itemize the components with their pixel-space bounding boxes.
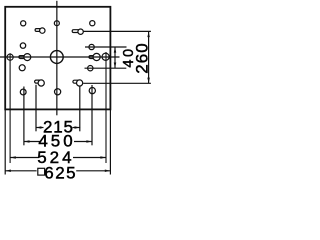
extension line 524 right xyxy=(105,52,107,163)
dim 625 arrow left xyxy=(5,170,10,173)
right edge crossed circle xyxy=(102,53,109,60)
extension line E4 circle row 2 xyxy=(85,67,127,69)
extension line E5 bottom keyhole row xyxy=(83,82,151,84)
right column hole lower xyxy=(88,66,93,71)
top row hole left xyxy=(21,21,26,26)
extension line E1 top keyhole row xyxy=(84,30,151,32)
dim 215 line left segment xyxy=(36,127,44,129)
top row hole right xyxy=(90,21,95,26)
dim 450 arrow right xyxy=(86,140,91,143)
top keyhole 2 xyxy=(72,29,83,34)
dim 215 arrow left xyxy=(36,126,41,129)
bottom row hole center xyxy=(55,89,61,95)
center big circle xyxy=(50,51,63,64)
svg-text:625: 625 xyxy=(44,164,77,183)
dim 524 arrow right xyxy=(100,156,105,159)
top keyhole 1 xyxy=(35,28,45,33)
horizontal centerline xyxy=(0,56,120,58)
extension line 524 left xyxy=(9,53,11,163)
dim 450 arrow left xyxy=(24,140,29,143)
extension line 450 left xyxy=(23,87,25,146)
left column hole lower xyxy=(19,65,25,71)
top row hole center xyxy=(54,21,59,26)
right circle1 tick xyxy=(85,46,127,48)
dim 215 arrow right xyxy=(75,126,80,129)
dim 625 line left segment xyxy=(5,170,36,172)
left edge crossed circle xyxy=(7,54,13,60)
centerline right keyhole xyxy=(89,53,100,60)
square symbol of 625 xyxy=(38,168,45,175)
dim 215 line right segment xyxy=(73,127,81,129)
svg-text:260: 260 xyxy=(132,42,151,73)
bottom keyhole 3 xyxy=(35,80,45,86)
left column hole upper xyxy=(20,43,25,48)
plate outline xyxy=(5,7,110,110)
bottom keyhole 4 xyxy=(73,80,83,86)
dim 260 arrow up xyxy=(147,32,150,37)
dim 524 line left segment xyxy=(10,157,39,159)
extension line 215 left xyxy=(35,85,37,132)
dim 450 line left segment xyxy=(24,141,40,143)
extension line 215 right xyxy=(79,86,81,131)
dim 625 arrow right xyxy=(105,170,110,173)
centerline left keyhole xyxy=(19,54,31,61)
dim 40 arrow down xyxy=(114,63,117,68)
extension line 625 left xyxy=(4,109,6,174)
dim 260 arrow down xyxy=(147,78,150,83)
dim 40 arrow up xyxy=(114,47,117,52)
right column hole upper xyxy=(89,44,94,49)
vertical centerline xyxy=(56,1,58,116)
dim 260 vertical line xyxy=(148,31,150,83)
dim 524 line right segment xyxy=(73,157,106,159)
bottom row hole right xyxy=(89,88,95,94)
dim 625 line right segment xyxy=(76,170,110,172)
bottom row hole left xyxy=(20,89,26,95)
dim 40 vertical line xyxy=(114,47,116,68)
dim 524 arrow left xyxy=(10,156,15,159)
dim 450 line right segment xyxy=(74,141,92,143)
extension line 450 right xyxy=(91,85,93,145)
extension line 625 right xyxy=(109,109,111,174)
